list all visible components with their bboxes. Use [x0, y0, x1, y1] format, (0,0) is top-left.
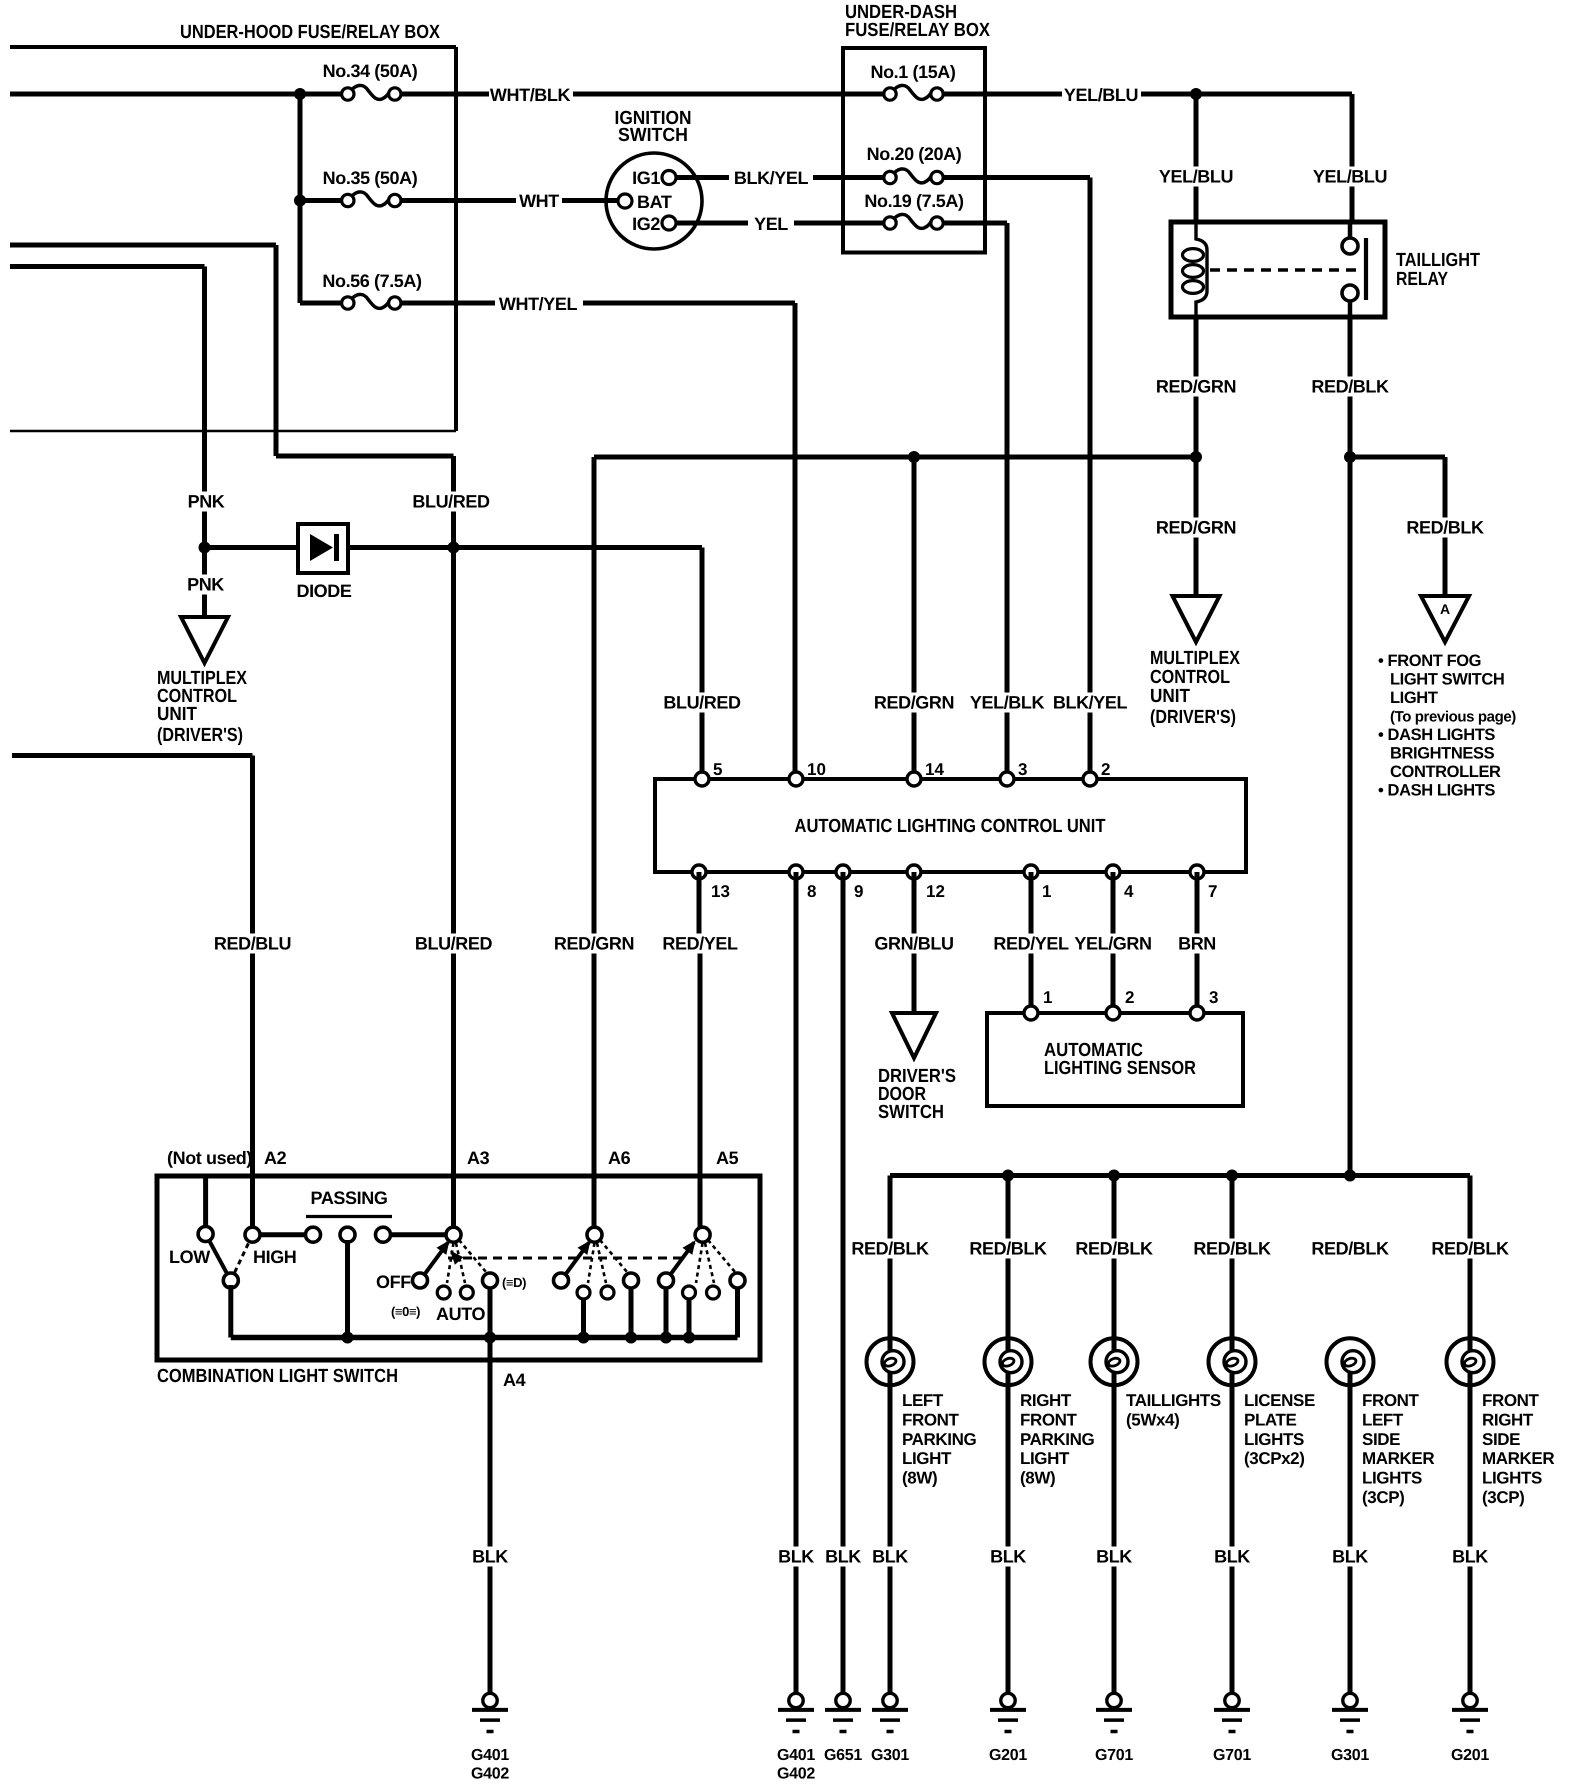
wire fuse bus vertical — [298, 94, 303, 303]
svg-text:G401: G401 — [471, 1747, 509, 1764]
svg-text:MARKER: MARKER — [1482, 1449, 1554, 1468]
lamp license plate lights — [1209, 1338, 1256, 1385]
contact LOW — [198, 1227, 213, 1242]
wire RED/BLK to taillights — [1112, 1176, 1117, 1351]
dimmer pivot — [223, 1273, 238, 1288]
svg-text:G201: G201 — [989, 1747, 1027, 1764]
svg-text:BLK: BLK — [825, 1547, 861, 1567]
ground G201 — [989, 1693, 1027, 1764]
svg-text:A: A — [1440, 601, 1450, 617]
wire RED/GRN from relay — [1194, 317, 1199, 457]
label GRN/BLU — [874, 934, 953, 954]
fuse No.1 (15A) — [870, 62, 955, 100]
svg-text:G402: G402 — [777, 1766, 815, 1783]
wire BLK right front parking light to ground — [1006, 1373, 1011, 1695]
svg-text:LEFT: LEFT — [1362, 1410, 1404, 1429]
svg-text:BLK: BLK — [1096, 1547, 1132, 1567]
svg-text:LOW: LOW — [169, 1247, 210, 1267]
text multiplex control unit left — [157, 668, 247, 746]
svg-text:FUSE/RELAY BOX: FUSE/RELAY BOX — [845, 20, 990, 41]
passing switch — [306, 1188, 392, 1217]
svg-text:No.20 (20A): No.20 (20A) — [867, 144, 962, 164]
svg-text:5: 5 — [713, 760, 722, 779]
wire RED/YEL pin13 to A5 — [699, 872, 700, 1229]
fuse No.19 (7.5A) — [864, 191, 964, 229]
wire pivot to bus — [228, 1285, 233, 1338]
ALCU pin 4 — [1106, 865, 1134, 901]
svg-text:WHT/YEL: WHT/YEL — [499, 294, 578, 314]
svg-text:LEFT: LEFT — [902, 1391, 944, 1410]
wire RED/BLK from relay — [1348, 317, 1353, 1176]
svg-text:BLK: BLK — [1332, 1547, 1368, 1567]
label BLK at x=890 — [872, 1547, 908, 1567]
svg-text:SWITCH: SWITCH — [618, 125, 688, 146]
svg-text:(Not used): (Not used) — [167, 1148, 252, 1168]
junction bus A6-b — [625, 1332, 637, 1344]
svg-text:LIGHTS: LIGHTS — [1482, 1469, 1542, 1488]
svg-text:(≡D): (≡D) — [502, 1275, 526, 1290]
label WHT/YEL — [499, 294, 578, 314]
ALCU pin 2 — [1083, 760, 1110, 786]
junction rail lamp2 — [1002, 1170, 1014, 1182]
automatic lighting sensor — [987, 1013, 1243, 1106]
ALCU pin 9 — [836, 865, 863, 901]
junction rail lamp4 — [1226, 1170, 1238, 1182]
svg-text:No.35 (50A): No.35 (50A) — [323, 168, 418, 188]
svg-text:A4: A4 — [503, 1370, 526, 1390]
svg-text:OFF: OFF — [376, 1272, 411, 1292]
text right front parking light — [1020, 1391, 1095, 1488]
label RED/GRN — [1156, 377, 1236, 397]
contact small A5-b — [707, 1286, 720, 1299]
svg-text:G701: G701 — [1213, 1747, 1251, 1764]
svg-text:BLK: BLK — [1214, 1547, 1250, 1567]
relay contacts — [1342, 222, 1358, 317]
svg-text:(8W): (8W) — [1020, 1469, 1055, 1488]
fuse No.34 (50A) — [323, 61, 418, 100]
wire RED/BLK to license plate lights — [1230, 1176, 1235, 1351]
junction rail lamp3 — [1108, 1170, 1120, 1182]
wire from previous page (PNK feed) — [10, 267, 205, 546]
wire PNK to arrow — [202, 545, 207, 617]
ALCU pin 10 — [789, 760, 826, 786]
label RED/BLK lamp3 — [1075, 1239, 1153, 1259]
svg-text:YEL: YEL — [754, 214, 788, 234]
wire YEL to pin 3 (YEL/BLK) — [944, 223, 1007, 779]
label A2 — [264, 1148, 287, 1168]
svg-text:No.56 (7.5A): No.56 (7.5A) — [322, 271, 422, 291]
text front left side marker lights — [1362, 1391, 1434, 1507]
wire passing-A3 — [390, 1232, 447, 1237]
svg-text:CONTROL: CONTROL — [1150, 667, 1230, 688]
contact small A3-b — [460, 1286, 473, 1299]
label RED/BLU A2 — [214, 934, 291, 954]
wire BLK license plate lights to ground — [1230, 1373, 1235, 1695]
sensor pin 3 — [1190, 988, 1218, 1020]
svg-text:(5Wx4): (5Wx4) — [1126, 1410, 1179, 1429]
svg-text:CONTROLLER: CONTROLLER — [1390, 763, 1501, 781]
svg-text:No.1 (15A): No.1 (15A) — [870, 62, 955, 82]
label LOW — [169, 1247, 210, 1267]
lamp front right side marker lights — [1447, 1338, 1494, 1385]
switch common bus — [231, 1335, 738, 1341]
junction bus-relay RED/GRN — [1190, 451, 1202, 463]
text front fog light switch list — [1378, 652, 1516, 800]
svg-text:RIGHT: RIGHT — [1020, 1391, 1072, 1410]
driver's door switch arrow — [892, 1013, 936, 1058]
wire diode to pin 5 — [348, 548, 702, 780]
contact small A3-a — [437, 1286, 450, 1299]
label RED/BLK lamp1 — [851, 1239, 929, 1259]
label BLU/RED upper — [412, 492, 490, 512]
label RED/BLK — [1311, 377, 1389, 397]
contact small A6-a — [577, 1286, 590, 1299]
svg-text:COMBINATION LIGHT SWITCH: COMBINATION LIGHT SWITCH — [157, 1366, 398, 1387]
svg-text:FRONT: FRONT — [1482, 1391, 1540, 1410]
svg-text:8: 8 — [807, 882, 816, 901]
wire WHT — [300, 198, 618, 203]
label A6 — [608, 1148, 631, 1168]
svg-text:• DASH LIGHTS: • DASH LIGHTS — [1378, 726, 1495, 744]
wire YEL/BLU — [944, 92, 1352, 97]
svg-text:HIGH: HIGH — [253, 1247, 296, 1267]
wire GRN/BLU pin 12 — [912, 872, 917, 1012]
contact A6 — [587, 1227, 602, 1242]
svg-text:G402: G402 — [471, 1766, 509, 1783]
lamp right front parking light — [985, 1338, 1032, 1385]
ALCU pin 12 — [907, 865, 945, 901]
ALCU pin 14 — [907, 760, 944, 786]
svg-text:RED/GRN: RED/GRN — [1156, 518, 1236, 538]
text front right side marker lights — [1482, 1391, 1554, 1507]
label A4 — [503, 1370, 526, 1390]
under-dash fuse/relay box — [843, 2, 990, 253]
svg-text:RED/BLK: RED/BLK — [1311, 377, 1389, 397]
svg-text:TAILLIGHT: TAILLIGHT — [1396, 250, 1480, 271]
relay armature dashed link — [1210, 268, 1356, 271]
text taillights — [1126, 1391, 1221, 1429]
svg-text:BRN: BRN — [1178, 934, 1216, 954]
wire BLK left front parking light to ground — [888, 1373, 893, 1695]
svg-text:BLK: BLK — [778, 1547, 814, 1567]
wire WHT/YEL to pin 10 — [793, 303, 798, 779]
ALCU pin 13 — [692, 865, 730, 901]
label RED/BLK lamp5 — [1311, 1239, 1389, 1259]
wire BLK front left side marker lights to ground — [1348, 1373, 1353, 1695]
svg-text:RED/GRN: RED/GRN — [1156, 377, 1236, 397]
svg-text:YEL/BLU: YEL/BLU — [1313, 167, 1387, 187]
terminal stub not-used — [203, 1176, 208, 1229]
wire from previous page (BLU/RED feed) — [10, 245, 454, 456]
label headlight icon — [502, 1275, 526, 1290]
svg-text:WHT/BLK: WHT/BLK — [490, 85, 571, 105]
fuse No.35 (50A) — [323, 168, 418, 207]
dimmer switch arm — [206, 1234, 253, 1281]
svg-text:BLK: BLK — [990, 1547, 1026, 1567]
svg-text:GRN/BLU: GRN/BLU — [874, 934, 953, 954]
label BLK at x=796 — [778, 1547, 814, 1567]
svg-text:G401: G401 — [777, 1747, 815, 1764]
ALCU pin 1 — [1024, 865, 1051, 901]
connector arrow A — [1421, 596, 1469, 642]
ground G301 — [871, 1693, 909, 1764]
junction bus A4 — [484, 1332, 496, 1344]
svg-text:FRONT: FRONT — [902, 1410, 960, 1429]
ignition switch — [606, 108, 702, 249]
contact passing right — [376, 1227, 391, 1242]
label RED/YEL sensor — [993, 934, 1069, 954]
svg-text:3: 3 — [1209, 988, 1218, 1007]
wire BLK/YEL to pin 2 — [944, 178, 1090, 780]
svg-text:LIGHT: LIGHT — [1390, 689, 1438, 707]
svg-text:RED/BLK: RED/BLK — [1406, 518, 1484, 538]
svg-text:RED/BLU: RED/BLU — [214, 934, 291, 954]
label A5 — [716, 1148, 739, 1168]
wire YEL/BLU to relay coil — [1194, 94, 1199, 222]
junction bus-pin14 — [908, 451, 920, 463]
svg-text:G301: G301 — [1331, 1747, 1369, 1764]
svg-text:14: 14 — [925, 760, 944, 779]
wire diode feed — [205, 545, 299, 550]
svg-text:FRONT: FRONT — [1020, 1410, 1078, 1429]
label BLK at x=843 — [825, 1547, 861, 1567]
svg-text:(To previous page): (To previous page) — [1390, 709, 1516, 726]
junction fuse bus mid — [294, 195, 306, 207]
label BLK at x=1350 — [1332, 1547, 1368, 1567]
label RED/YEL A5 — [662, 934, 738, 954]
svg-text:BRIGHTNESS: BRIGHTNESS — [1390, 745, 1495, 763]
wire BLK pin 8 to ground — [794, 872, 799, 1695]
label BLU/RED A3 — [415, 934, 493, 954]
sensor pin 2 — [1106, 988, 1134, 1020]
contact A6-head — [624, 1273, 639, 1288]
label PNK upper — [188, 492, 225, 512]
svg-text:YEL/BLU: YEL/BLU — [1159, 167, 1233, 187]
junction diode-BLU/RED — [448, 542, 460, 554]
svg-text:PASSING: PASSING — [311, 1188, 388, 1208]
contact A3 — [446, 1227, 461, 1242]
svg-text:WHT: WHT — [519, 191, 559, 211]
svg-text:RED/YEL: RED/YEL — [993, 934, 1069, 954]
svg-text:BLU/RED: BLU/RED — [663, 693, 741, 713]
label WHT — [519, 191, 559, 211]
svg-text:TAILLIGHTS: TAILLIGHTS — [1126, 1391, 1221, 1410]
multiplex control unit arrow (PNK) — [181, 617, 228, 663]
svg-text:BLK: BLK — [872, 1547, 908, 1567]
svg-text:UNIT: UNIT — [1150, 686, 1190, 707]
junction fuse bus top — [294, 88, 306, 100]
wire A4 stem — [488, 1287, 493, 1338]
wire RED/BLK to left front parking light — [888, 1176, 893, 1351]
svg-text:No.34 (50A): No.34 (50A) — [323, 61, 418, 81]
text left front parking light — [902, 1391, 977, 1488]
junction YEL/BLU split — [1190, 88, 1202, 100]
svg-text:1: 1 — [1042, 882, 1051, 901]
wire HIGH-passing — [259, 1232, 307, 1237]
contact A5-head — [730, 1273, 745, 1288]
svg-text:UNDER-HOOD FUSE/RELAY BOX: UNDER-HOOD FUSE/RELAY BOX — [180, 22, 440, 43]
ALCU pin 3 — [1000, 760, 1027, 786]
svg-text:RED/BLK: RED/BLK — [1431, 1239, 1509, 1259]
wire RED/YEL pin 1 to sensor — [1029, 872, 1034, 1013]
wire WHT/BLK battery feed — [10, 92, 884, 97]
label YEL — [754, 214, 788, 234]
fuse No.56 (7.5A) — [322, 271, 422, 309]
svg-text:LIGHT SWITCH: LIGHT SWITCH — [1390, 671, 1504, 689]
contact small A5-a — [683, 1286, 696, 1299]
wire YEL/BLU to relay contact — [1350, 94, 1355, 222]
svg-text:RELAY: RELAY — [1396, 269, 1448, 290]
svg-text:SIDE: SIDE — [1362, 1430, 1400, 1449]
junction bus A5-a — [660, 1332, 672, 1344]
taillight feed rail — [890, 1176, 1470, 1339]
svg-text:BLK/YEL: BLK/YEL — [1053, 693, 1128, 713]
label BLK/YEL — [734, 168, 809, 188]
ground G701 — [1213, 1693, 1251, 1764]
under-hood fuse/relay box — [10, 22, 456, 431]
svg-text:PNK: PNK — [188, 492, 225, 512]
ground G401/G402 — [777, 1693, 815, 1782]
svg-text:G701: G701 — [1095, 1747, 1133, 1764]
sensor pin 1 — [1024, 988, 1052, 1020]
lamp left front parking light — [867, 1338, 914, 1385]
svg-text:BAT: BAT — [637, 192, 672, 212]
ground G401/G402 — [471, 1693, 509, 1782]
wire BRN pin 7 to sensor — [1195, 872, 1200, 1013]
label OFF — [376, 1272, 411, 1292]
wire RED/BLK branch to A — [1350, 457, 1445, 595]
svg-text:G201: G201 — [1451, 1747, 1489, 1764]
junction bus A5-b — [683, 1332, 695, 1344]
svg-text:1: 1 — [1043, 988, 1052, 1007]
lighting switch section A6 — [561, 1240, 627, 1283]
taillight relay — [1171, 222, 1480, 317]
label BLK at x=1114 — [1096, 1547, 1132, 1567]
svg-text:RED/YEL: RED/YEL — [662, 934, 738, 954]
lamp front left side marker lights — [1327, 1338, 1374, 1385]
label PNK lower — [187, 575, 224, 595]
wire RED/GRN distribution bus — [594, 457, 1196, 1229]
svg-text:AUTO: AUTO — [436, 1304, 485, 1324]
svg-text:SIDE: SIDE — [1482, 1430, 1520, 1449]
label BLK at x=1008 — [990, 1547, 1026, 1567]
svg-text:2: 2 — [1101, 760, 1110, 779]
svg-text:• FRONT FOG: • FRONT FOG — [1378, 652, 1481, 670]
junction rail feed — [1344, 1170, 1356, 1182]
multiplex control unit arrow (driver's) — [1173, 596, 1220, 642]
junction PNK — [199, 542, 211, 554]
lighting switch section A3 — [420, 1240, 486, 1283]
svg-text:(DRIVER'S): (DRIVER'S) — [1150, 707, 1236, 728]
label position-light icon — [391, 1304, 420, 1319]
ground G201 — [1451, 1693, 1489, 1764]
contact OFF — [413, 1273, 428, 1288]
svg-text:(3CPx2): (3CPx2) — [1244, 1449, 1305, 1468]
svg-text:RIGHT: RIGHT — [1482, 1410, 1534, 1429]
label YEL/BLU — [1064, 85, 1138, 105]
svg-text:YEL/BLU: YEL/BLU — [1064, 85, 1138, 105]
svg-text:RED/BLK: RED/BLK — [851, 1239, 929, 1259]
svg-text:RED/BLK: RED/BLK — [1311, 1239, 1389, 1259]
svg-text:PLATE: PLATE — [1244, 1410, 1297, 1429]
svg-text:RED/GRN: RED/GRN — [554, 934, 634, 954]
svg-text:(3CP): (3CP) — [1482, 1488, 1524, 1507]
svg-text:FRONT: FRONT — [1362, 1391, 1420, 1410]
svg-text:G651: G651 — [824, 1747, 862, 1764]
svg-text:A5: A5 — [716, 1148, 739, 1168]
svg-text:MARKER: MARKER — [1362, 1449, 1434, 1468]
svg-text:UNIT: UNIT — [157, 704, 197, 725]
text multiplex control unit right — [1150, 648, 1240, 728]
wire passing stem — [345, 1240, 350, 1338]
svg-text:G301: G301 — [871, 1747, 909, 1764]
label BLK at x=1470 — [1452, 1547, 1488, 1567]
svg-text:RED/GRN: RED/GRN — [874, 693, 954, 713]
svg-text:BLK: BLK — [472, 1547, 508, 1567]
svg-text:LIGHTS: LIGHTS — [1362, 1469, 1422, 1488]
label AUTO — [436, 1304, 485, 1324]
ground G701 — [1095, 1693, 1133, 1764]
svg-text:BLK/YEL: BLK/YEL — [734, 168, 809, 188]
svg-text:7: 7 — [1208, 882, 1217, 901]
junction bus A6-a — [578, 1332, 590, 1344]
contact A6-off — [554, 1273, 569, 1288]
svg-text:IG1: IG1 — [632, 168, 660, 188]
label RED/GRN A6 — [554, 934, 634, 954]
svg-text:10: 10 — [807, 760, 826, 779]
contact passing mid — [340, 1227, 355, 1242]
svg-text:BLK: BLK — [1452, 1547, 1488, 1567]
svg-text:MULTIPLEX: MULTIPLEX — [1150, 648, 1240, 669]
ALCU pin 8 — [789, 865, 816, 901]
svg-text:(3CP): (3CP) — [1362, 1488, 1404, 1507]
wire WHT/YEL — [300, 301, 795, 306]
junction bus passing — [342, 1332, 354, 1344]
ground G651 — [824, 1693, 862, 1764]
svg-text:IG2: IG2 — [632, 214, 660, 234]
wire RED/GRN to pin 14 — [912, 457, 917, 779]
wire RED/BLK to front right side marker lights — [1468, 1176, 1473, 1351]
wire BLK pin 9 to ground — [841, 872, 846, 1695]
label WHT/BLK — [490, 85, 571, 105]
label HIGH — [253, 1247, 296, 1267]
label RED/BLK lamp2 — [969, 1239, 1047, 1259]
label BLU/RED pin5 — [663, 693, 741, 713]
wire BLK taillights to ground — [1112, 1373, 1117, 1695]
ground G301 — [1331, 1693, 1369, 1764]
wire RED/GRN to multiplex arrow — [1194, 457, 1199, 595]
svg-text:YEL/GRN: YEL/GRN — [1074, 934, 1151, 954]
label YEL/BLU left — [1159, 167, 1233, 187]
svg-text:A6: A6 — [608, 1148, 631, 1168]
svg-text:YEL/BLK: YEL/BLK — [970, 693, 1045, 713]
label A3 — [467, 1148, 490, 1168]
wire YEL (IG2 to fuse No.19) — [676, 221, 884, 226]
svg-text:PARKING: PARKING — [1020, 1430, 1095, 1449]
svg-text:LIGHTING SENSOR: LIGHTING SENSOR — [1044, 1058, 1196, 1079]
fuse No.20 (20A) — [867, 144, 962, 184]
svg-text:9: 9 — [854, 882, 863, 901]
wire BLK front right side marker lights to ground — [1468, 1373, 1473, 1695]
svg-text:4: 4 — [1124, 882, 1134, 901]
svg-text:PARKING: PARKING — [902, 1430, 977, 1449]
text driver's door switch — [878, 1066, 956, 1123]
svg-text:(8W): (8W) — [902, 1469, 937, 1488]
ALCU pin 7 — [1190, 865, 1217, 901]
wire BLK/YEL (IG1 to fuse No.20) — [676, 175, 884, 180]
svg-text:(≡0≡): (≡0≡) — [391, 1304, 420, 1319]
svg-text:3: 3 — [1018, 760, 1027, 779]
